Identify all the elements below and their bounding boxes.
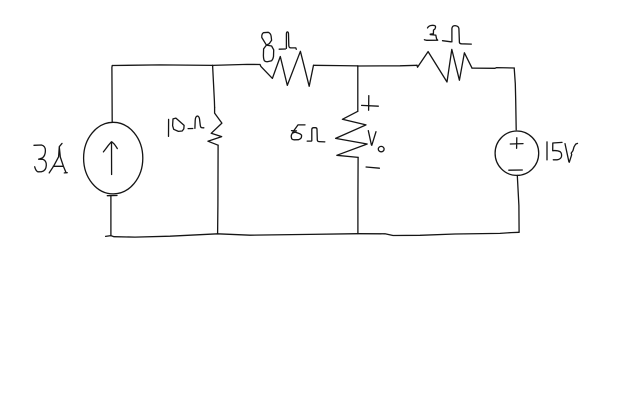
label ohm sign of 8-ohm bbox=[279, 32, 296, 49]
wire: voltage source bottom down to bottom-right corner bbox=[517, 175, 519, 232]
wire: node A to resistor R2 left lead bbox=[213, 64, 260, 65]
node A (junction of top wire, 10-ohm branch, 8-ohm) bbox=[212, 64, 214, 67]
wire: resistor R1 bottom lead down to bottom rail bbox=[217, 145, 220, 234]
label "5" of 15V bbox=[553, 142, 562, 159]
wire: resistor R4 right lead to top-right corner bbox=[472, 67, 514, 70]
wire: node A down to resistor R1 top lead bbox=[213, 66, 215, 108]
wire: resistor R2 right lead to node B bbox=[314, 64, 358, 67]
wire: node B to resistor R4 left lead bbox=[358, 64, 417, 67]
wire: node B down to resistor R3 top lead bbox=[357, 66, 359, 111]
label minus sign below Vo bbox=[366, 167, 379, 168]
resistor R3 6-ohm vertical zigzag bbox=[336, 111, 368, 157]
label ohm sign of 10-ohm bbox=[188, 116, 204, 129]
label ohm sign of 6-ohm bbox=[307, 128, 325, 142]
wire: left vertical from top-left corner down to current source top bbox=[111, 66, 113, 122]
wire: current source bottom down to bottom rail bbox=[110, 196, 112, 236]
label "6" of 6-ohm bbox=[291, 125, 305, 140]
resistor R1 10-ohm vertical zigzag bbox=[208, 107, 222, 145]
label "8" of 8-ohm bbox=[262, 32, 274, 61]
label "0" of 10-ohm bbox=[173, 118, 185, 131]
label "3" of 3A bbox=[34, 145, 46, 172]
label "3" of 3-ohm bbox=[424, 25, 437, 40]
label "1" of 10-ohm bbox=[168, 119, 170, 136]
label "o" subscript of Vo bbox=[378, 146, 384, 151]
current source I1 arrow shaft bbox=[111, 142, 113, 174]
label "V" of Vo bbox=[368, 131, 376, 146]
label plus sign above Vo bbox=[362, 96, 379, 111]
current source I1 ellipse bbox=[84, 122, 143, 194]
wire: right vertical from top-right corner down to voltage source top bbox=[514, 68, 516, 130]
label "1" of 15V bbox=[546, 142, 548, 160]
junction tick at current source bottom bbox=[107, 195, 117, 197]
label ohm sign of 3-ohm bbox=[443, 26, 472, 44]
voltage source V1 minus sign bbox=[509, 169, 523, 171]
node B (junction of 8-ohm, 6-ohm branch, 3-ohm) bbox=[357, 65, 359, 68]
wire: bottom rail bbox=[106, 232, 519, 237]
resistor R2 8-ohm horizontal zigzag bbox=[260, 51, 314, 86]
label "A" of 3A bbox=[49, 143, 67, 173]
wire: resistor R3 bottom lead down to bottom rail bbox=[357, 157, 359, 233]
voltage source V1 plus sign bbox=[510, 138, 523, 149]
label "V" of 15V bbox=[565, 143, 578, 162]
current source I1 arrow head bbox=[103, 142, 117, 152]
resistor R4 3-ohm horizontal zigzag bbox=[417, 49, 472, 82]
voltage source V1 circle bbox=[495, 131, 539, 175]
wire: top-left horizontal from corner to node A bbox=[112, 64, 212, 67]
